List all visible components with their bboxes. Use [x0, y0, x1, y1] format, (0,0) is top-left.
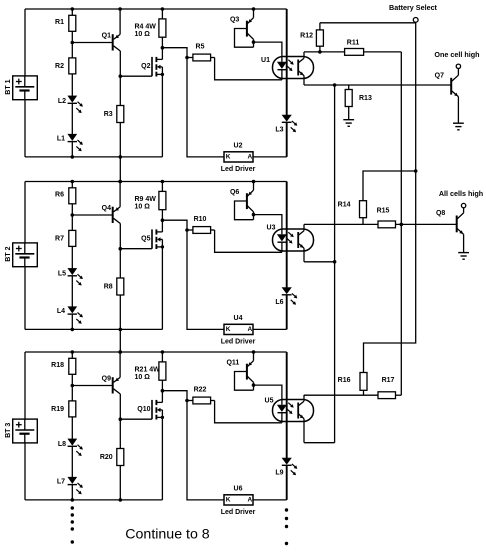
wire R5 to opto LED cathode — [215, 58, 282, 80]
node R22 left junction — [185, 399, 189, 403]
wire Q1 collector to Q2 gate — [120, 75, 152, 77]
resistor R17 — [378, 392, 396, 399]
node R10 left junction — [185, 228, 189, 232]
mosfet Q5 — [151, 229, 153, 248]
svg-text:R10: R10 — [194, 216, 207, 223]
wire Q11 collector to opto LED — [254, 385, 282, 405]
wire R22 to opto LED cathode — [215, 401, 282, 423]
svg-text:R13: R13 — [359, 95, 372, 102]
terminal One cell high — [456, 64, 460, 68]
svg-text:L1: L1 — [57, 135, 65, 142]
mosfet Q2 — [151, 57, 153, 76]
svg-text:R12: R12 — [300, 33, 313, 40]
wire U5 emitter line — [304, 442, 335, 444]
transistor Q3 (PNP) — [252, 7, 256, 11]
svg-text:BT 1: BT 1 — [5, 79, 12, 94]
wire left rail lower — [24, 100, 26, 157]
svg-text:Q9: Q9 — [102, 376, 111, 383]
led driver U6 — [224, 495, 253, 505]
resistor R14 — [360, 201, 367, 218]
svg-text:10 Ω: 10 Ω — [135, 374, 151, 381]
transistor Q9 (PNP) — [112, 377, 114, 393]
resistor R4 4W 10ohm — [161, 7, 165, 11]
wire left rail upper — [24, 352, 26, 419]
svg-text:R19: R19 — [51, 406, 64, 413]
wire left rail upper — [24, 182, 26, 243]
LED L5 — [68, 268, 77, 274]
wire R9 bottom to R10 — [162, 220, 187, 230]
node Battery Select bus junction — [414, 169, 418, 173]
node R20 bottom — [119, 498, 123, 502]
wire left rail lower — [24, 267, 26, 330]
LED L2 — [68, 96, 77, 102]
resistor R21 4W 10ohm — [161, 350, 165, 354]
svg-text:Led Driver: Led Driver — [221, 509, 256, 516]
wire base of Q9 — [72, 385, 112, 387]
svg-text:Q11: Q11 — [226, 360, 239, 367]
svg-text:Battery Select: Battery Select — [389, 3, 438, 12]
wire Q4 collector to Q5 gate — [120, 248, 152, 250]
battery BT 3 — [13, 419, 38, 443]
transistor Q8 (NPN) — [456, 216, 458, 233]
svg-text:L8: L8 — [58, 441, 66, 448]
svg-text:R22: R22 — [194, 386, 207, 393]
resistor R16 — [360, 373, 367, 391]
transistor Q11 (PNP) — [252, 350, 256, 354]
node emitter bus junction 2 — [333, 260, 337, 264]
LED L6 — [282, 288, 291, 294]
svg-text:Q7: Q7 — [435, 73, 444, 80]
svg-text:L5: L5 — [58, 270, 66, 277]
resistor R9 4W 10ohm — [161, 180, 165, 184]
svg-text:R9 4W: R9 4W — [135, 196, 157, 203]
ground Q7 — [453, 122, 464, 124]
svg-text:K: K — [226, 154, 231, 161]
wire K column to U6 — [187, 401, 224, 500]
wire series link to next cell — [119, 157, 121, 182]
svg-text:R3: R3 — [104, 111, 113, 118]
svg-text:10 Ω: 10 Ω — [135, 203, 151, 210]
resistor R3 — [119, 76, 121, 105]
resistor R2 — [69, 58, 76, 74]
LED L9 — [282, 458, 291, 464]
wire left rail upper — [24, 9, 26, 76]
resistor R19 — [69, 401, 76, 417]
wire left rail lower — [24, 443, 26, 500]
svg-text:L6: L6 — [275, 299, 283, 306]
svg-text:U5: U5 — [265, 397, 274, 404]
svg-text:L7: L7 — [57, 478, 65, 485]
wire A pin of U6 to L9 — [253, 499, 287, 501]
LED L4 — [68, 307, 77, 313]
wire lamp column from top rail — [286, 9, 288, 115]
svg-text:A: A — [247, 497, 252, 504]
wire L8 to L7 — [71, 446, 73, 477]
svg-text:U6: U6 — [234, 486, 243, 493]
resistor R22 — [187, 400, 193, 402]
svg-text:R15: R15 — [377, 207, 390, 214]
wire A pin of U4 to L6 — [253, 328, 287, 330]
svg-text:Led Driver: Led Driver — [221, 339, 256, 346]
transistor Q4 (PNP) — [112, 207, 114, 223]
wire R11 bus down — [400, 52, 402, 225]
battery BT 1 — [13, 76, 38, 100]
svg-text:R5: R5 — [196, 43, 205, 50]
resistor R13 — [348, 85, 350, 90]
LED L7 — [68, 477, 77, 483]
svg-text:R2: R2 — [55, 63, 64, 70]
transistor Q6 (PNP) — [252, 180, 256, 184]
continuation dots right — [285, 508, 288, 511]
node divider junction — [71, 41, 75, 45]
node R21 bottom — [161, 389, 165, 393]
svg-text:Q1: Q1 — [102, 33, 111, 40]
svg-text:K: K — [226, 326, 231, 333]
svg-text:One cell high: One cell high — [434, 50, 479, 59]
wire U1 collector line — [304, 51, 345, 53]
svg-text:Q4: Q4 — [102, 205, 111, 212]
wire R11 bus to R17 — [400, 224, 402, 395]
svg-text:Q5: Q5 — [141, 235, 150, 242]
resistor R11 — [345, 49, 364, 56]
wire U1 emitter line — [304, 84, 451, 86]
wire U3 emitter line — [304, 261, 335, 263]
wire A pin of U2 to L3 — [253, 156, 287, 158]
resistor R6 — [71, 180, 75, 184]
wire Q6 collector to opto LED — [254, 215, 282, 235]
wire L7 cathode to rail — [71, 485, 73, 500]
svg-text:R4 4W: R4 4W — [135, 24, 157, 31]
resistor R10 — [187, 229, 193, 231]
wire Battery Select bus — [415, 23, 417, 171]
wire L1 cathode to rail — [71, 142, 73, 157]
svg-text:L9: L9 — [275, 470, 283, 477]
led driver U4 — [224, 324, 253, 334]
node Q4 collector junction — [119, 247, 123, 251]
led driver U2 — [224, 152, 253, 162]
svg-text:BT 2: BT 2 — [5, 246, 12, 261]
LED L3 — [282, 115, 291, 121]
optocoupler U1 — [273, 57, 314, 79]
svg-text:L4: L4 — [57, 308, 65, 315]
node R8 bottom — [119, 328, 123, 332]
wire Q11 base loop — [235, 372, 254, 391]
wire top rail (block U4) — [25, 181, 287, 183]
wire bottom rail — [25, 156, 162, 158]
wire Q3 collector — [247, 33, 254, 39]
svg-text:Q8: Q8 — [436, 210, 445, 217]
svg-text:R1: R1 — [55, 19, 64, 26]
resistor R1 — [71, 7, 75, 11]
node R3 bottom — [119, 155, 123, 159]
wire base of Q4 — [72, 214, 112, 216]
wire L2 to L1 — [71, 103, 73, 134]
svg-text:Q2: Q2 — [141, 63, 150, 70]
node Q1 collector junction — [119, 74, 123, 78]
node R12 junction — [318, 50, 322, 54]
wire Q3 collector to opto LED — [254, 42, 282, 62]
svg-text:All cells high: All cells high — [439, 189, 483, 198]
transistor Q1 (PNP) — [112, 34, 114, 50]
node emitter bus junction 1 — [333, 83, 337, 87]
wire U5 collector line to R17 — [304, 394, 378, 396]
wire top rail (block U6) — [25, 351, 287, 353]
node R15 bus junction — [400, 223, 404, 227]
wire bottom rail — [25, 328, 162, 330]
svg-text:Led Driver: Led Driver — [221, 166, 256, 173]
wire Q3 base loop — [235, 29, 254, 48]
optocoupler U3 — [273, 229, 314, 251]
wire L3 cathode down — [286, 122, 288, 157]
optocoupler U5 — [273, 400, 314, 422]
terminal All cells high — [461, 203, 465, 207]
wire R4 bottom to R5 — [162, 48, 187, 58]
wire K column to U2 — [187, 58, 224, 157]
svg-text:A: A — [247, 326, 252, 333]
wire series link to next cell — [119, 329, 121, 352]
wire emitter bus — [334, 85, 336, 443]
wire R12 top to Battery Select — [320, 22, 416, 24]
wire R16 feed — [364, 171, 416, 373]
wire L6 cathode down — [286, 295, 288, 330]
wire Q9 collector to Q10 gate — [120, 418, 152, 420]
svg-text:R7: R7 — [55, 235, 64, 242]
wire U3 collector line to R15 — [304, 223, 378, 225]
node R9 bottom — [161, 218, 165, 222]
wire Q11 collector — [247, 376, 254, 382]
wire lamp column from top rail — [286, 352, 288, 458]
svg-text:R6: R6 — [55, 192, 64, 199]
svg-text:L2: L2 — [58, 98, 66, 105]
wire L5 to L4 — [71, 276, 73, 307]
svg-text:R21 4W: R21 4W — [135, 367, 161, 374]
wire bottom rail — [25, 499, 162, 501]
svg-text:BT 3: BT 3 — [5, 423, 12, 438]
svg-text:R18: R18 — [51, 362, 64, 369]
wire R10 to opto LED cathode — [215, 230, 282, 252]
resistor R5 — [187, 57, 193, 59]
LED L1 — [68, 134, 77, 140]
wire base of Q1 — [72, 42, 112, 44]
svg-text:Q3: Q3 — [230, 17, 239, 24]
svg-text:Q10: Q10 — [137, 406, 150, 413]
svg-text:Continue to 8: Continue to 8 — [125, 527, 210, 543]
resistor R20 — [119, 419, 121, 448]
node R4 bottom — [161, 46, 165, 50]
ground R13 — [343, 119, 354, 121]
svg-text:R20: R20 — [100, 454, 113, 461]
wire lamp column from top rail — [286, 182, 288, 288]
resistor R8 — [119, 249, 121, 278]
svg-text:U4: U4 — [234, 315, 243, 322]
wire K column to U4 — [187, 230, 224, 329]
resistor R15 — [378, 221, 396, 228]
transistor Q7 (NPN) — [450, 78, 452, 95]
svg-text:R8: R8 — [104, 284, 113, 291]
wire Q6 collector — [247, 205, 254, 211]
wire R21 bottom to R22 — [162, 391, 187, 401]
wire R14 feed — [363, 171, 416, 201]
svg-text:R16: R16 — [338, 377, 351, 384]
ground Q8 — [458, 252, 469, 254]
node R5 left junction — [185, 56, 189, 60]
node divider junction — [71, 213, 75, 217]
LED L8 — [68, 439, 77, 445]
continuation dots left — [71, 506, 74, 509]
battery BT 2 — [13, 243, 38, 267]
svg-text:R14: R14 — [338, 201, 351, 208]
resistor R7 — [69, 230, 76, 246]
terminal Battery Select — [413, 18, 418, 23]
wire top rail (block U2) — [25, 8, 287, 10]
svg-text:R17: R17 — [382, 377, 395, 384]
svg-text:A: A — [247, 154, 252, 161]
resistor R18 — [71, 350, 75, 354]
svg-text:10 Ω: 10 Ω — [135, 31, 151, 38]
node Q9 collector junction — [119, 417, 123, 421]
svg-text:U1: U1 — [261, 57, 270, 64]
svg-text:K: K — [226, 497, 231, 504]
wire Q6 base loop — [235, 201, 254, 220]
node divider junction — [71, 384, 75, 388]
svg-text:U2: U2 — [234, 143, 243, 150]
svg-text:R11: R11 — [347, 39, 360, 46]
wire L9 cathode down — [286, 465, 288, 500]
svg-text:Q6: Q6 — [230, 189, 239, 196]
svg-text:U3: U3 — [267, 224, 276, 231]
wire L4 cathode to rail — [71, 314, 73, 329]
resistor R12 — [319, 23, 321, 30]
svg-text:L3: L3 — [275, 127, 283, 134]
mosfet Q10 — [151, 400, 153, 419]
